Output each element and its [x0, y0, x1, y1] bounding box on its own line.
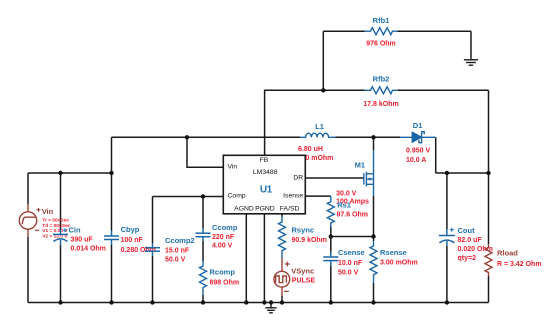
- svg-text:0.950 V: 0.950 V: [406, 148, 430, 155]
- svg-text:Rfb1: Rfb1: [373, 16, 390, 25]
- svg-text:Vin: Vin: [42, 207, 54, 216]
- source Vin: [19, 204, 36, 237]
- capacitor Cbyp: [104, 231, 119, 246]
- wire Cout branch: [446, 173, 448, 303]
- resistor Rsense: [370, 241, 377, 283]
- wire Rload branch: [488, 173, 490, 303]
- svg-text:390 uF: 390 uF: [71, 237, 94, 244]
- svg-text:100 nF: 100 nF: [121, 237, 144, 244]
- ground top right: [464, 58, 478, 66]
- svg-text:Comp: Comp: [228, 193, 246, 200]
- svg-text:Ccomp: Ccomp: [212, 223, 238, 232]
- svg-text:LM3488: LM3488: [253, 169, 278, 176]
- svg-text:Td = 50uSec: Td = 50uSec: [42, 223, 70, 229]
- svg-text:qty=2: qty=2: [458, 255, 477, 262]
- wire L1 input line: [112, 136, 301, 138]
- wire FA/SD stub: [281, 214, 283, 217]
- wire FB riser: [265, 90, 324, 155]
- wire Ccomp2 branch: [152, 197, 154, 303]
- svg-text:15.0 nF: 15.0 nF: [165, 248, 190, 255]
- svg-text:97.6 Ohm: 97.6 Ohm: [337, 212, 369, 219]
- svg-text:Rcomp: Rcomp: [210, 268, 236, 277]
- svg-text:220 nF: 220 nF: [212, 234, 235, 241]
- svg-text:FB: FB: [260, 157, 269, 164]
- wire Isense line: [305, 195, 331, 197]
- svg-text:976 Ohm: 976 Ohm: [366, 41, 396, 48]
- svg-text:Cin: Cin: [69, 226, 82, 235]
- svg-text:D1: D1: [413, 121, 423, 130]
- wire Rs1 to node: [330, 227, 332, 237]
- capacitor Cout (polarized): [439, 229, 455, 246]
- svg-text:FA/SD: FA/SD: [280, 205, 300, 212]
- wire Vin pin feed: [187, 137, 223, 167]
- svg-text:Vin: Vin: [228, 163, 238, 170]
- diode D1 (schottky): [400, 132, 436, 143]
- svg-text:Rs1: Rs1: [337, 200, 351, 209]
- svg-text:698 Ohm: 698 Ohm: [210, 279, 240, 286]
- resistor Rfb2: [365, 87, 398, 94]
- svg-text:VSync: VSync: [291, 266, 314, 275]
- resistor Rload: [485, 244, 492, 276]
- wire Rfb2 line: [323, 90, 488, 173]
- source VSync PULSE: [274, 258, 290, 296]
- wire Cin branch: [60, 173, 62, 303]
- transistor M1 (NMOS): [364, 150, 374, 196]
- svg-text:50 mOhm: 50 mOhm: [302, 155, 334, 162]
- wire PGND drop: [263, 214, 265, 303]
- wire Rsense branch: [373, 237, 375, 303]
- svg-text:Isense: Isense: [283, 193, 303, 200]
- svg-text:0.020 Ohm: 0.020 Ohm: [458, 246, 493, 253]
- svg-text:4.00 V: 4.00 V: [212, 242, 233, 249]
- svg-text:U1: U1: [260, 185, 273, 196]
- svg-text:DR: DR: [293, 175, 303, 182]
- svg-text:Cout: Cout: [458, 226, 476, 235]
- svg-text:Cbyp: Cbyp: [121, 225, 140, 234]
- wire VSync bottom: [281, 296, 283, 303]
- svg-text:10.0 nF: 10.0 nF: [338, 260, 363, 267]
- wire D1 cathode drop: [435, 137, 437, 173]
- wire bottom rail: [28, 302, 489, 304]
- svg-text:3.00 mOhm: 3.00 mOhm: [380, 259, 418, 266]
- svg-text:PULSE: PULSE: [292, 278, 316, 285]
- wire M1 drain riser: [373, 137, 375, 150]
- resistor Rfb1: [365, 28, 398, 35]
- svg-text:50.0 V: 50.0 V: [338, 269, 359, 276]
- resistor Rsync: [279, 217, 286, 259]
- svg-text:6.80 uH: 6.80 uH: [298, 146, 323, 153]
- svg-text:PGND: PGND: [255, 205, 275, 212]
- svg-text:Rload: Rload: [497, 249, 518, 258]
- svg-text:82.0 uF: 82.0 uF: [458, 237, 483, 244]
- svg-text:90.9 kOhm: 90.9 kOhm: [292, 237, 327, 244]
- ground bottom center: [265, 303, 276, 313]
- wire Vin top drop: [27, 173, 29, 204]
- svg-text:Csense: Csense: [338, 248, 365, 257]
- svg-text:Tr = 50uSec: Tr = 50uSec: [42, 218, 69, 224]
- wire L1 to M1 node to D1: [336, 136, 401, 138]
- svg-text:AGND: AGND: [234, 205, 254, 212]
- svg-text:Ccomp2: Ccomp2: [165, 236, 195, 245]
- resistor Rs1: [327, 196, 334, 227]
- svg-text:Rsync: Rsync: [292, 226, 315, 235]
- wire Ccomp Rcomp branch: [202, 197, 204, 303]
- capacitor Cin (polarized): [53, 230, 68, 246]
- svg-text:V1 = 0.00 V: V1 = 0.00 V: [42, 228, 68, 234]
- svg-text:M1: M1: [355, 161, 365, 170]
- wire M1 source drop: [373, 196, 375, 237]
- wire DR gate line: [305, 177, 364, 179]
- svg-text:L1: L1: [315, 122, 324, 131]
- svg-text:30.0 V: 30.0 V: [336, 190, 357, 197]
- svg-text:Rsense: Rsense: [380, 248, 407, 257]
- svg-text:10.0 A: 10.0 A: [406, 157, 426, 164]
- capacitor Ccomp2: [145, 243, 160, 256]
- wire output node line: [436, 172, 489, 174]
- svg-text:Rfb2: Rfb2: [373, 75, 390, 84]
- svg-text:17.8 kOhm: 17.8 kOhm: [363, 101, 398, 108]
- inductor L1: [300, 133, 336, 137]
- wire Vin bottom drop: [27, 237, 29, 303]
- svg-text:50.0 V: 50.0 V: [165, 257, 186, 264]
- svg-text:0.014 Ohm: 0.014 Ohm: [71, 245, 106, 252]
- resistor Rcomp: [200, 261, 207, 295]
- op-amp U1 LM3488 box: [223, 155, 305, 214]
- wire Cbyp branch: [111, 137, 113, 302]
- capacitor Csense: [323, 252, 338, 267]
- wire sense node line: [331, 236, 374, 238]
- svg-text:R = 3.42 Ohm: R = 3.42 Ohm: [497, 261, 542, 268]
- wire AGND drop: [245, 214, 247, 303]
- wire top-left rail: [28, 172, 112, 174]
- wire Comp line: [153, 196, 224, 198]
- wire Csense branch: [330, 237, 332, 303]
- capacitor Ccomp: [196, 228, 211, 241]
- wire Rfb1 line: [323, 31, 471, 57]
- wire Rfb loop left vertical: [322, 31, 324, 90]
